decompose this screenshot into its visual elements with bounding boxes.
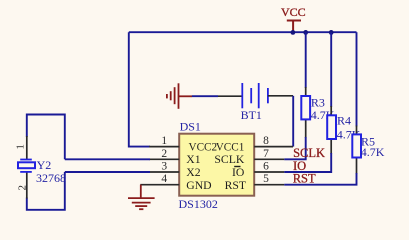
svg-text:6: 6: [263, 161, 269, 173]
resistor R4: [327, 115, 336, 154]
svg-text:IO: IO: [232, 166, 244, 179]
resistor R3: [301, 96, 310, 138]
svg-text:4: 4: [161, 173, 167, 185]
pin 2 line (X1): [149, 158, 179, 160]
wire VCC rail top horizontal: [129, 31, 357, 33]
svg-text:R4: R4: [337, 114, 351, 128]
svg-text:7: 7: [263, 148, 269, 160]
svg-text:5: 5: [263, 173, 269, 185]
wire R4 bottom lead to IO net: [284, 153, 331, 172]
pin 8 line (VCC1): [254, 146, 293, 148]
svg-text:2: 2: [16, 185, 28, 191]
ground (battery side, pointing left): [167, 83, 192, 109]
wire ground to battery minus: [192, 95, 242, 97]
pin 6 line (IO): [254, 171, 284, 173]
svg-text:1: 1: [161, 135, 167, 147]
svg-text:8: 8: [263, 135, 269, 147]
pin name IO with overbar: [232, 166, 244, 179]
crystal Y2: [18, 136, 35, 199]
svg-text:VCC1: VCC1: [216, 141, 245, 153]
pin 7 line (SCLK): [254, 158, 284, 160]
pin 5 line (RST): [254, 184, 284, 186]
pin 1 line (VCC2): [149, 146, 179, 148]
svg-text:DS1302: DS1302: [179, 197, 218, 211]
wire X1 net from crystal to pin 2: [65, 158, 150, 160]
IC DS1 (DS1302) body: [179, 134, 254, 196]
wire crystal top loop: [27, 115, 65, 160]
wire R4 top lead: [330, 32, 332, 115]
wire X2 net from crystal to pin 3: [65, 171, 150, 173]
svg-text:DS1: DS1: [180, 119, 201, 133]
svg-text:RST: RST: [293, 172, 316, 186]
battery BT1: [242, 83, 268, 108]
junction VCC stub on rail: [291, 30, 296, 35]
junction R3 on rail: [303, 30, 308, 35]
wire R3 top lead: [305, 32, 307, 96]
ground (below chip pin 4): [128, 185, 155, 210]
svg-text:RST: RST: [225, 179, 246, 192]
svg-text:BT1: BT1: [241, 108, 262, 122]
svg-text:X2: X2: [186, 166, 200, 179]
svg-text:VCC: VCC: [281, 5, 306, 19]
svg-text:IO: IO: [293, 159, 306, 173]
svg-text:3: 3: [161, 161, 167, 173]
junction R4 on rail: [329, 30, 334, 35]
svg-text:32768: 32768: [36, 171, 66, 185]
resistor R5: [352, 134, 361, 174]
svg-text:SCLK: SCLK: [214, 153, 244, 166]
wire battery plus to pin 8: [268, 96, 293, 147]
wire R3 bottom lead to SCLK net: [284, 137, 306, 159]
wire left drop from VCC rail to pin 1: [129, 32, 150, 146]
pin 3 line (X2): [149, 171, 179, 173]
power symbol VCC: [281, 5, 306, 32]
svg-text:VCC2: VCC2: [189, 141, 218, 153]
wire crystal bottom loop: [27, 172, 65, 210]
svg-text:GND: GND: [186, 179, 211, 192]
svg-text:2: 2: [161, 148, 167, 160]
svg-text:X1: X1: [186, 153, 200, 166]
svg-text:Y2: Y2: [37, 158, 52, 172]
wire R5 bottom lead to RST net: [284, 173, 356, 185]
pin 4 line (GND): [140, 184, 179, 186]
svg-text:4.7K: 4.7K: [361, 145, 385, 159]
wire R5 top lead from rail corner: [356, 32, 358, 134]
svg-text:1: 1: [15, 144, 27, 150]
